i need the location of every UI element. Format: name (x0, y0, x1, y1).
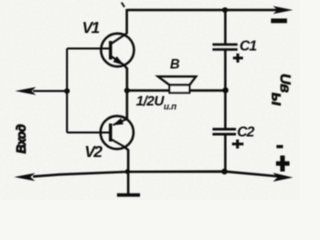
svg-text:C1: C1 (240, 39, 257, 55)
svg-text:B: B (170, 57, 180, 72)
svg-text:C2: C2 (237, 125, 254, 141)
svg-text:Uв: Uв (277, 74, 294, 93)
svg-text:V2: V2 (85, 144, 103, 161)
svg-text:Вход: Вход (15, 124, 29, 154)
svg-text:ы: ы (268, 93, 285, 106)
svg-text:V1: V1 (82, 20, 100, 37)
